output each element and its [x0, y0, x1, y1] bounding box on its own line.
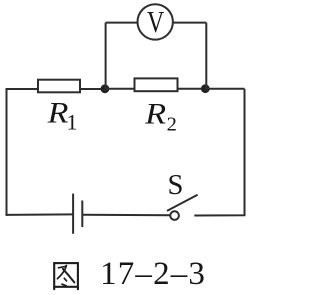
svg-text:17–2–3: 17–2–3 [100, 256, 205, 292]
wire node B to top-right corner [205, 88, 245, 90]
svg-text:R: R [144, 98, 166, 131]
wire node A to R2 [105, 88, 135, 90]
wire switch to bottom-right corner [194, 89, 244, 216]
svg-text:R: R [47, 96, 69, 129]
voltmeter V1 circle [138, 4, 173, 39]
svg-text:V: V [147, 5, 164, 39]
svg-text:1: 1 [67, 110, 78, 135]
switch S lever [167, 195, 198, 211]
wire voltmeter left riser [105, 23, 107, 89]
wire left side vertical [6, 88, 8, 216]
wire battery to switch [82, 214, 170, 217]
node A (junction dot) [101, 84, 110, 93]
wire voltmeter top-left [106, 22, 138, 24]
wire R1 to node A [80, 88, 104, 90]
wire R2 to node B [178, 88, 206, 90]
battery long plate (+) [72, 194, 74, 234]
wire voltmeter top-right [173, 22, 206, 24]
switch S pivot circle [170, 211, 179, 220]
resistor R2 [135, 78, 178, 91]
caption glyph 图 (tu, "figure") drawn as strokes [54, 263, 78, 289]
resistor R1 [38, 80, 80, 93]
svg-text:2: 2 [167, 113, 177, 135]
wire voltmeter right riser [205, 23, 207, 89]
wire bottom-left to battery [6, 213, 74, 216]
battery short plate (-) [81, 201, 83, 228]
node B (junction dot) [201, 84, 210, 93]
wire top-left: corner to R1 [7, 89, 39, 90]
svg-text:S: S [168, 170, 184, 201]
